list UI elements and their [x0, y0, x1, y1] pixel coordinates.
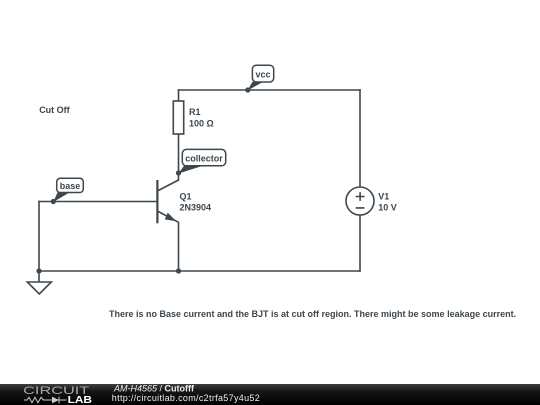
wire resistor bottom lead (collector node): [178, 134, 180, 180]
ground: [27, 271, 51, 294]
svg-text:http://circuitlab.com/c2trfa57: http://circuitlab.com/c2trfa57y4u52: [112, 393, 260, 403]
wire right vertical upper (vcc rail to V1): [359, 90, 361, 187]
wire left vertical (base node to ground rail): [38, 202, 40, 272]
node collector box: [182, 149, 225, 165]
junction dot vcc: [245, 87, 250, 92]
ground triangle: [27, 282, 51, 294]
wire top horizontal (vcc rail): [179, 89, 361, 91]
junction dot collector: [176, 170, 181, 175]
svg-text:V1: V1: [378, 192, 389, 202]
svg-text:Q1: Q1: [180, 192, 192, 202]
ground stem: [38, 271, 40, 282]
node base flag: [53, 178, 83, 202]
transistor Q1 base bar: [156, 180, 158, 223]
svg-text:AM-H4565 / Cutofff: AM-H4565 / Cutofff: [113, 383, 195, 393]
resistor R1: [173, 101, 213, 134]
voltage source V1 circle: [346, 187, 374, 215]
node collector pointer: [179, 166, 204, 174]
transistor Q1 emitter arrow: [165, 213, 177, 222]
svg-text:2N3904: 2N3904: [180, 203, 212, 213]
svg-text:collector: collector: [185, 153, 223, 163]
transistor Q1 collector lead: [157, 180, 178, 191]
logo resistor-diode squiggle: [24, 397, 67, 404]
node vcc flag: [248, 65, 274, 90]
node vcc pointer: [248, 82, 264, 91]
transistor Q1 emitter lead: [157, 211, 178, 222]
transistor Q1 (NPN 2N3904): [157, 180, 211, 223]
voltage source V1: [346, 187, 397, 215]
junction dot ground-left: [36, 268, 41, 273]
svg-text:vcc: vcc: [255, 70, 270, 80]
junction dot base: [51, 199, 56, 204]
resistor R1 body: [173, 101, 183, 134]
svg-text:LAB: LAB: [68, 395, 92, 405]
wire resistor top lead: [178, 90, 180, 101]
node collector flag: [179, 149, 226, 173]
wire base horizontal (to Q1 base): [39, 201, 157, 203]
node base box: [57, 178, 84, 192]
wire bottom horizontal (ground rail): [39, 270, 360, 272]
wire emitter vertical: [178, 223, 180, 272]
voltage source V1 plus/minus marks: [356, 192, 365, 208]
wire right vertical lower (V1 to bottom rail): [359, 215, 361, 271]
footer bar: [0, 384, 540, 405]
svg-text:10 V: 10 V: [378, 202, 397, 212]
junction dot emitter-bottom: [176, 268, 181, 273]
svg-text:100 Ω: 100 Ω: [189, 118, 214, 128]
svg-text:There is no Base current and t: There is no Base current and the BJT is …: [109, 309, 516, 319]
svg-text:base: base: [60, 181, 81, 191]
node base pointer: [53, 193, 69, 203]
svg-text:Cut Off: Cut Off: [39, 105, 70, 115]
svg-text:R1: R1: [189, 107, 201, 117]
node vcc box: [252, 65, 273, 82]
